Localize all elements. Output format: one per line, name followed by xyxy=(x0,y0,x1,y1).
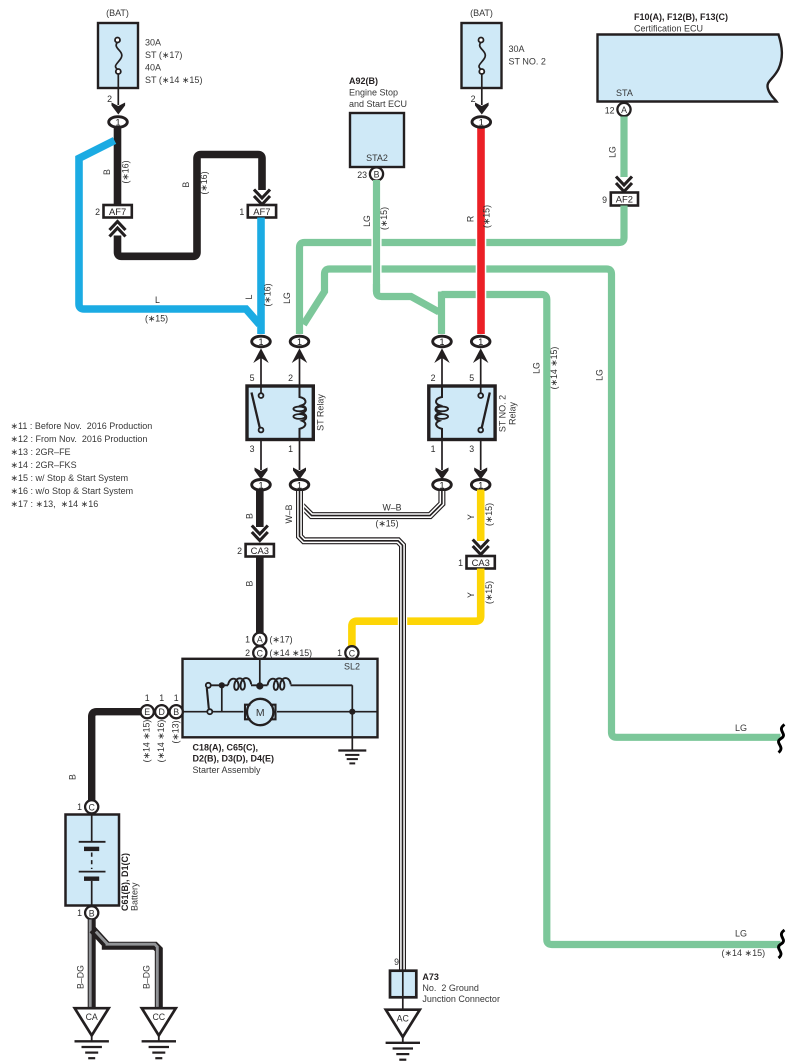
svg-text:(∗15): (∗15) xyxy=(484,581,494,604)
node 1 below ST NO.2 relay pin 3 xyxy=(471,439,490,491)
svg-text:1: 1 xyxy=(77,908,82,918)
ground triangle CC xyxy=(142,1008,176,1058)
svg-text:AF7: AF7 xyxy=(253,206,270,217)
connector 2 AF7 xyxy=(95,205,132,218)
svg-text:STA2: STA2 xyxy=(366,153,388,163)
node 1 above ST relay pin 2 xyxy=(290,336,309,386)
starter internal: motor line xyxy=(213,711,377,713)
node 1 above ST relay pin 5 xyxy=(252,336,271,386)
svg-text:Y: Y xyxy=(466,592,476,598)
svg-text:B: B xyxy=(245,580,255,586)
motor M xyxy=(245,699,276,725)
starter pin circle A xyxy=(245,633,292,646)
svg-text:A92(B): A92(B) xyxy=(349,76,378,86)
wire Y yellow ST NO.2 relay 3 to CA3 xyxy=(466,490,494,542)
connector arrow into node (fuse2) xyxy=(475,103,489,115)
svg-text:1: 1 xyxy=(478,337,483,347)
relay ST Relay xyxy=(247,386,326,440)
svg-text:(∗15): (∗15) xyxy=(484,503,494,526)
ground triangle CA xyxy=(75,1008,109,1058)
svg-text:1: 1 xyxy=(439,481,444,491)
svg-text:1: 1 xyxy=(439,337,444,347)
svg-text:(∗13): (∗13) xyxy=(170,720,180,743)
chevron arrow down into 1 CA3 xyxy=(473,540,489,555)
svg-text:D: D xyxy=(159,707,165,717)
svg-text:M: M xyxy=(256,707,265,719)
wire L blue (*15) xyxy=(79,141,273,335)
wire B-DG battery to ground CA xyxy=(76,920,92,1009)
svg-text:(∗17): (∗17) xyxy=(270,635,293,645)
svg-text:C: C xyxy=(349,648,356,658)
svg-text:LG: LG xyxy=(608,146,618,158)
starter internal ground drop xyxy=(351,685,353,750)
starter pin circle C xyxy=(245,646,312,659)
starter assembly SL2 box xyxy=(183,659,378,738)
node 1 above ST NO.2 relay pin 2 xyxy=(433,336,452,386)
svg-text:2: 2 xyxy=(431,373,436,383)
svg-text:1: 1 xyxy=(479,118,484,128)
svg-text:B: B xyxy=(89,908,95,918)
svg-text:Engine Stop: Engine Stop xyxy=(349,88,398,98)
svg-text:ST NO. 2: ST NO. 2 xyxy=(509,57,546,67)
wire W-B ST relay 1 to A73 xyxy=(300,491,403,970)
svg-text:Junction Connector: Junction Connector xyxy=(422,994,500,1004)
svg-text:(∗14 ∗15): (∗14 ∗15) xyxy=(549,347,559,390)
svg-text:(∗14 ∗15): (∗14 ∗15) xyxy=(722,948,766,958)
svg-text:No. 2 Ground: No. 2 Ground xyxy=(422,983,479,993)
svg-text:Starter Assembly: Starter Assembly xyxy=(193,765,262,775)
svg-text:1: 1 xyxy=(145,693,150,703)
svg-text:F10(A), F12(B), F13(C): F10(A), F12(B), F13(C) xyxy=(634,12,728,22)
svg-text:B: B xyxy=(374,170,380,180)
svg-text:∗15 : w/ Stop & Start System: ∗15 : w/ Stop & Start System xyxy=(11,473,129,483)
svg-text:∗14 : 2GR–FKS: ∗14 : 2GR–FKS xyxy=(11,460,77,470)
svg-text:LG: LG xyxy=(282,292,292,304)
svg-text:3: 3 xyxy=(250,444,255,454)
svg-text:B–DG: B–DG xyxy=(76,965,86,989)
svg-text:and Start ECU: and Start ECU xyxy=(349,99,407,109)
svg-text:2: 2 xyxy=(288,373,293,383)
svg-text:W–B: W–B xyxy=(284,504,294,523)
svg-text:2: 2 xyxy=(471,94,476,104)
svg-text:Y: Y xyxy=(466,514,476,520)
svg-text:LG: LG xyxy=(362,215,372,227)
starter internal: switch xyxy=(206,683,213,714)
svg-text:1: 1 xyxy=(159,693,164,703)
certification ECU box F10/F12/F13 xyxy=(598,12,782,102)
svg-text:B: B xyxy=(68,774,78,780)
svg-text:(∗15): (∗15) xyxy=(482,205,492,228)
svg-text:(∗15): (∗15) xyxy=(379,207,389,230)
svg-text:C18(A), C65(C),: C18(A), C65(C), xyxy=(193,743,259,753)
svg-text:B: B xyxy=(181,182,191,188)
svg-text:9: 9 xyxy=(394,957,399,967)
svg-text:SL2: SL2 xyxy=(344,662,360,672)
svg-text:(∗16): (∗16) xyxy=(263,283,273,306)
svg-text:2: 2 xyxy=(107,94,112,104)
svg-text:(∗16): (∗16) xyxy=(199,171,209,194)
starter assembly labels xyxy=(193,743,275,776)
svg-text:B–DG: B–DG xyxy=(142,965,152,989)
wire W-B link between relay pins 1 xyxy=(284,491,442,529)
svg-text:(∗16): (∗16) xyxy=(121,160,131,183)
svg-text:1: 1 xyxy=(115,118,120,128)
svg-text:1: 1 xyxy=(337,648,342,658)
ECU A92(B) Engine Stop and Start ECU xyxy=(349,76,407,167)
battery C61(B), D1(C) xyxy=(66,815,140,912)
svg-text:ST Relay: ST Relay xyxy=(316,394,326,431)
svg-text:9: 9 xyxy=(602,195,607,205)
svg-text:(BAT): (BAT) xyxy=(470,8,493,18)
svg-text:40A: 40A xyxy=(145,63,161,73)
ground symbol under starter xyxy=(338,751,366,764)
svg-text:1: 1 xyxy=(478,481,483,491)
wire LG branch to right page edge (lower) xyxy=(304,269,781,737)
svg-text:(∗15): (∗15) xyxy=(375,519,398,529)
junction dots on coil line xyxy=(219,682,225,688)
starter pin circles E D B xyxy=(141,693,207,718)
svg-text:B: B xyxy=(173,707,179,717)
wire A73 to ground AC xyxy=(402,998,404,1010)
wire B black thick starter E to battery xyxy=(92,712,141,801)
svg-text:(∗14 ∗15): (∗14 ∗15) xyxy=(270,648,313,658)
svg-text:LG: LG xyxy=(735,723,747,733)
svg-text:Relay: Relay xyxy=(508,401,518,425)
fuse ST NO.2 30A (BAT) xyxy=(462,8,546,88)
starter internal: feed line from C xyxy=(259,660,261,685)
wire B black loop AF7 to AF7 xyxy=(118,155,263,257)
off-page squiggle (LG wire y=941) xyxy=(779,930,785,958)
wire LG from A92 STA2 to ST NO.2 relay xyxy=(362,180,439,312)
svg-text:2: 2 xyxy=(237,546,242,556)
svg-text:2: 2 xyxy=(245,648,250,658)
svg-text:∗11 : Before Nov. 2016 Produc: ∗11 : Before Nov. 2016 Production xyxy=(11,421,153,431)
ground triangle AC xyxy=(386,1010,420,1060)
svg-text:1: 1 xyxy=(297,337,302,347)
svg-text:A: A xyxy=(621,105,627,115)
svg-text:1: 1 xyxy=(258,481,263,491)
svg-text:1: 1 xyxy=(174,693,179,703)
svg-text:C: C xyxy=(257,648,264,658)
svg-text:AF7: AF7 xyxy=(109,206,126,217)
connector arrow into node 1 xyxy=(112,103,126,115)
wire LG long branch to right page edge (bottom) xyxy=(442,292,781,959)
node 1 above ST NO.2 relay pin 5 xyxy=(471,336,490,386)
node 1 (fuse ST output) xyxy=(109,117,128,128)
notes legend xyxy=(11,421,153,509)
connector 9 AF2 xyxy=(602,193,638,206)
svg-text:Battery: Battery xyxy=(129,882,139,911)
chevron arrow up into 2 AF7 xyxy=(110,222,126,237)
svg-text:C: C xyxy=(89,802,96,812)
wire fuse2 pin 2 xyxy=(471,74,482,105)
svg-text:∗16 : w/o Stop & Start System: ∗16 : w/o Stop & Start System xyxy=(11,486,134,496)
svg-text:LG: LG xyxy=(532,362,542,374)
svg-text:1: 1 xyxy=(458,558,463,568)
connector 2 CA3 xyxy=(237,544,274,557)
chevron arrow down into 1 AF7 xyxy=(254,190,270,205)
svg-text:(BAT): (BAT) xyxy=(106,8,129,18)
svg-text:AF2: AF2 xyxy=(616,194,633,205)
svg-text:3: 3 xyxy=(469,444,474,454)
svg-text:W–B: W–B xyxy=(382,503,401,513)
svg-text:CC: CC xyxy=(152,1012,165,1022)
svg-text:1: 1 xyxy=(297,481,302,491)
chevron arrow down into AF2 xyxy=(616,177,632,192)
battery pin circle B xyxy=(77,906,98,919)
svg-text:30A: 30A xyxy=(145,38,161,48)
node 1 below ST relay pin 3 xyxy=(252,439,271,491)
connector A73 No.2 Ground Junction Connector xyxy=(390,957,500,1004)
pin 12 circle A of certification ECU xyxy=(605,103,631,116)
junction dot on motor line xyxy=(349,709,355,715)
svg-text:D2(B), D3(D), D4(E): D2(B), D3(D), D4(E) xyxy=(193,754,275,764)
wire Y yellow CA3 to starter circle C xyxy=(352,569,494,648)
svg-text:(∗15): (∗15) xyxy=(145,314,168,324)
off-page squiggle (LG wire y=735) xyxy=(779,725,785,753)
svg-text:1: 1 xyxy=(245,635,250,645)
connector 1 CA3 xyxy=(458,556,495,569)
node 1 (fuse ST NO.2 output) xyxy=(472,117,491,128)
starter internal: link from coil to motor line xyxy=(221,685,223,711)
svg-text:5: 5 xyxy=(469,373,474,383)
svg-text:A73: A73 xyxy=(422,972,439,982)
svg-text:∗17 : ∗13, ∗14 ∗16: ∗17 : ∗13, ∗14 ∗16 xyxy=(11,499,99,509)
svg-text:30A: 30A xyxy=(509,44,525,54)
svg-text:2: 2 xyxy=(95,207,100,217)
svg-text:ST (∗14 ∗15): ST (∗14 ∗15) xyxy=(145,75,202,85)
svg-text:1: 1 xyxy=(258,337,263,347)
svg-text:LG: LG xyxy=(595,369,605,381)
svg-text:(∗14 ∗16): (∗14 ∗16) xyxy=(156,720,166,763)
svg-text:1: 1 xyxy=(239,207,244,217)
svg-text:B: B xyxy=(102,169,112,175)
connector 1 AF7 xyxy=(239,205,276,218)
svg-text:CA3: CA3 xyxy=(251,545,269,556)
wire B-DG branch to ground CC xyxy=(93,930,159,1009)
svg-text:ST NO. 2: ST NO. 2 xyxy=(498,395,508,432)
wire B black fuse to AF7 xyxy=(102,128,131,206)
pin 23 circle B of A92 xyxy=(357,167,383,180)
svg-text:CA3: CA3 xyxy=(472,557,490,568)
svg-text:CA: CA xyxy=(86,1012,98,1022)
starter internal: coil line with inductors xyxy=(212,678,353,690)
wire LG cert ECU to AF2 xyxy=(608,117,624,178)
svg-text:1: 1 xyxy=(431,444,436,454)
svg-text:∗13 : 2GR–FE: ∗13 : 2GR–FE xyxy=(11,447,71,457)
svg-text:L: L xyxy=(155,295,160,305)
battery pin circle C xyxy=(77,800,98,813)
svg-text:R: R xyxy=(466,216,476,222)
svg-text:LG: LG xyxy=(735,929,747,939)
node 1 below ST NO.2 relay pin 1 xyxy=(433,439,452,491)
wire LG from AF2 to ST relay xyxy=(282,206,624,335)
wire R red fuse2 to ST NO.2 relay xyxy=(466,128,492,334)
svg-text:ST (∗17): ST (∗17) xyxy=(145,50,182,60)
svg-text:23: 23 xyxy=(357,170,367,180)
svg-text:∗12 : From Nov. 2016 Producti: ∗12 : From Nov. 2016 Production xyxy=(11,434,148,444)
svg-text:1: 1 xyxy=(288,444,293,454)
fuse ST 30A/40A (BAT) xyxy=(98,8,202,88)
svg-text:E: E xyxy=(144,707,150,717)
wire B black CA3 to starter circle A xyxy=(245,557,260,635)
svg-text:(∗14 ∗15): (∗14 ∗15) xyxy=(141,720,151,763)
svg-text:L: L xyxy=(244,294,254,299)
node 1 below ST relay pin 1 xyxy=(290,439,309,491)
svg-text:5: 5 xyxy=(250,373,255,383)
svg-text:1: 1 xyxy=(77,802,82,812)
relay ST NO.2 Relay xyxy=(429,386,518,440)
svg-text:B: B xyxy=(245,513,255,519)
wire B black ST relay 3 to CA3 xyxy=(245,490,260,528)
svg-text:12: 12 xyxy=(605,106,615,116)
svg-text:A: A xyxy=(257,635,263,645)
svg-text:Certification ECU: Certification ECU xyxy=(634,24,703,34)
chevron arrow down into 2 CA3 xyxy=(252,526,268,541)
svg-text:AC: AC xyxy=(397,1014,410,1024)
wire fuse pin 2 xyxy=(107,74,118,105)
starter pin circle C (yellow side) xyxy=(337,646,358,659)
svg-text:STA: STA xyxy=(616,88,633,98)
pin variant labels under E D B xyxy=(141,720,180,763)
